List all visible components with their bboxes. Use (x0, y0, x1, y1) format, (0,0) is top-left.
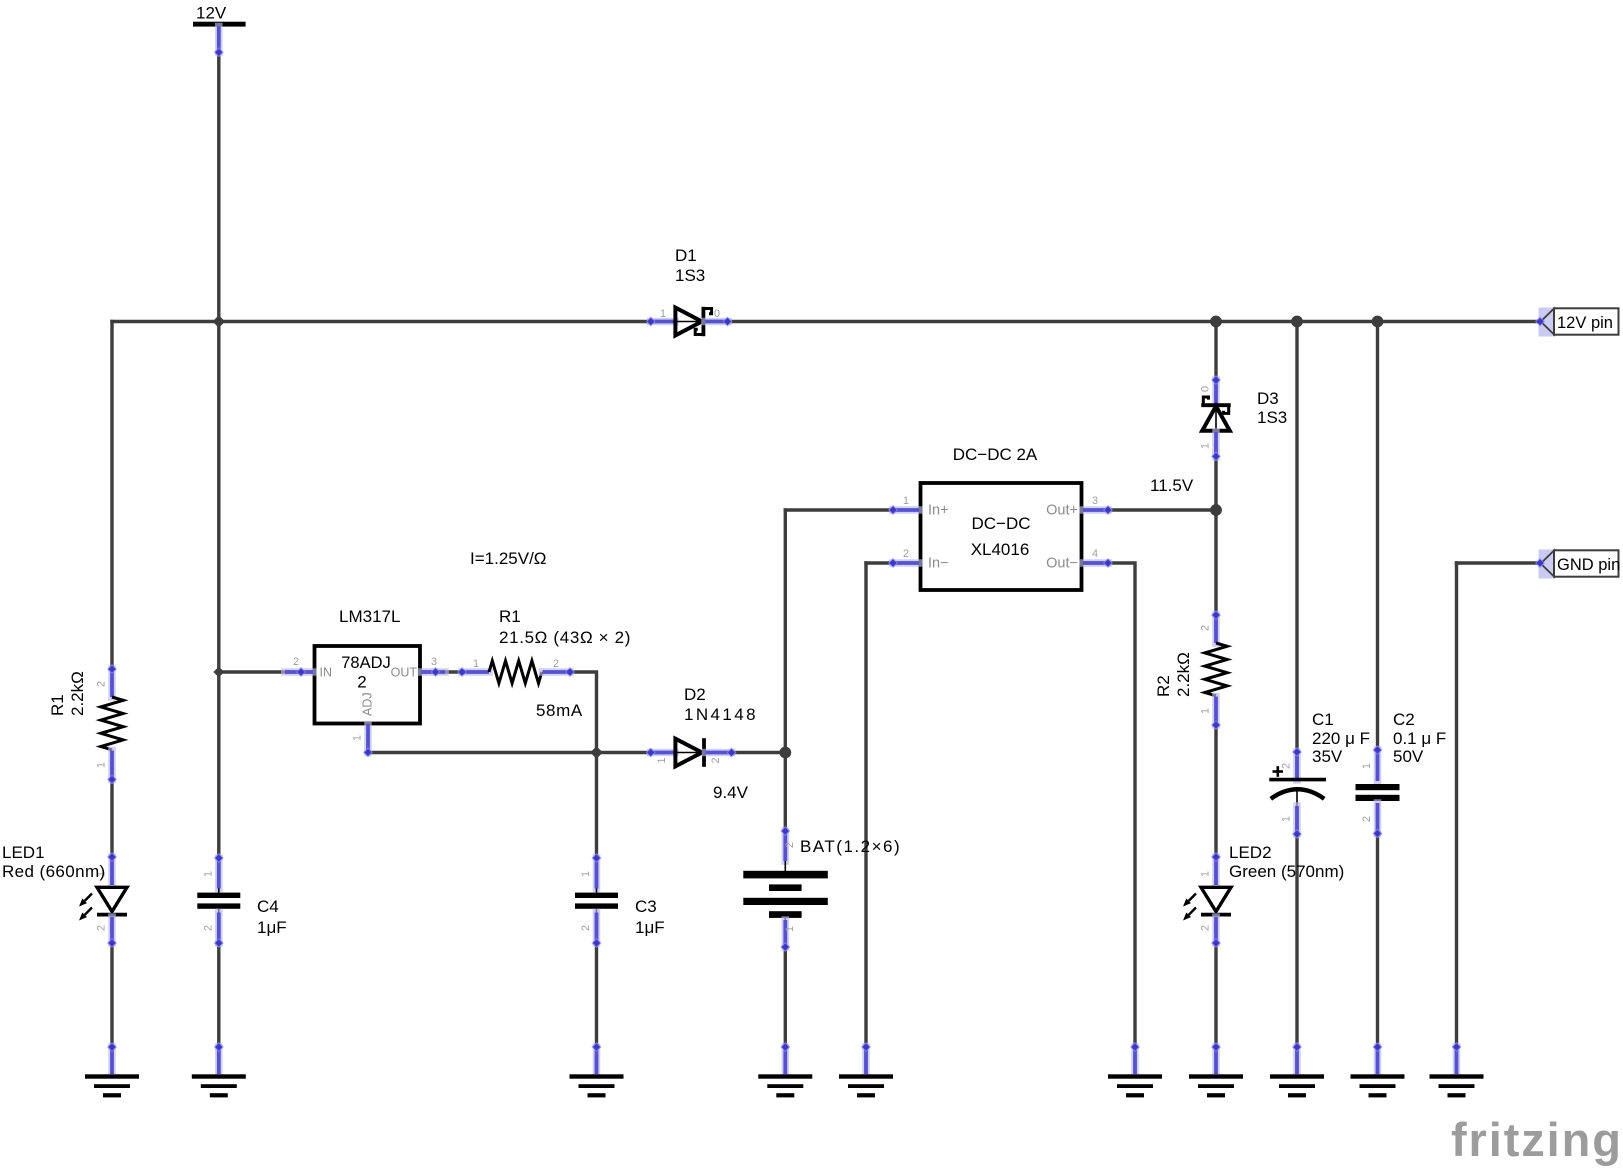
wire left branch down to R1 (110, 322, 113, 670)
svg-text:2.2kΩ: 2.2kΩ (68, 671, 87, 716)
svg-text:ADJ: ADJ (361, 692, 375, 716)
regulator U1 LM317L (315, 646, 421, 724)
svg-text:3: 3 (431, 656, 437, 668)
wire C4 to ground (217, 943, 220, 1047)
wire R1 to LED1 (110, 780, 113, 858)
svg-text:Green (570nm): Green (570nm) (1229, 862, 1344, 881)
power symbol 12V (193, 22, 246, 27)
svg-text:fritzing: fritzing (1451, 1113, 1623, 1166)
svg-text:1N4148: 1N4148 (684, 705, 758, 724)
svg-text:21.5Ω (43Ω × 2): 21.5Ω (43Ω × 2) (499, 628, 631, 647)
ground GND9 (1374, 1047, 1382, 1074)
svg-text:1: 1 (660, 308, 666, 320)
svg-text:3: 3 (1092, 495, 1098, 507)
junction node node B junction (779, 747, 791, 759)
svg-text:1: 1 (1281, 816, 1293, 822)
svg-text:GND pin: GND pin (1557, 556, 1620, 574)
wire rail to C2 (1376, 322, 1379, 751)
svg-text:Out+: Out+ (1046, 503, 1078, 519)
ground GND8 (1293, 1047, 1301, 1074)
svg-text:2.2kΩ: 2.2kΩ (1174, 652, 1193, 697)
svg-text:2: 2 (96, 681, 108, 687)
svg-text:2: 2 (96, 925, 108, 931)
svg-text:I=1.25V/Ω: I=1.25V/Ω (470, 549, 547, 568)
svg-text:220 μ F: 220 μ F (1312, 729, 1370, 748)
svg-text:2: 2 (1200, 925, 1212, 931)
svg-text:In−: In− (928, 556, 949, 572)
wire D2 to node B (732, 751, 786, 754)
wire node B to battery (784, 753, 787, 832)
battery BAT 1.2x6 (781, 831, 789, 861)
ground GND4 (781, 1047, 789, 1074)
ground GND6 (1131, 1047, 1139, 1074)
svg-text:R2: R2 (1154, 675, 1173, 697)
diode D2 1N4148 (651, 749, 675, 757)
svg-text:35V: 35V (1312, 747, 1343, 766)
wire C2 to ground (1376, 834, 1379, 1048)
wire C1 to ground (1295, 834, 1298, 1047)
svg-text:OUT: OUT (391, 666, 418, 680)
svg-text:Red (660nm): Red (660nm) (2, 862, 106, 881)
junction node C4 branch junction (213, 667, 224, 678)
svg-text:XL4016: XL4016 (971, 540, 1030, 559)
junction node rail/C1 junction (1291, 316, 1303, 328)
wire C3 to ground (595, 943, 598, 1047)
svg-text:2: 2 (1361, 816, 1373, 822)
resistor R1 2.2k ohm (108, 669, 116, 697)
wire rail to C4 branch (217, 322, 220, 859)
wire 12V supply drop (217, 52, 220, 321)
junction node rail/12V junction (213, 315, 226, 328)
converter U2 DC-DC XL4016 (921, 483, 1082, 590)
diode D3 1S3 (1212, 380, 1220, 404)
svg-text:1: 1 (784, 926, 796, 932)
capacitor C3 (593, 858, 601, 889)
svg-text:1μF: 1μF (635, 918, 665, 937)
svg-text:LM317L: LM317L (339, 607, 400, 626)
svg-text:R1: R1 (48, 694, 67, 716)
svg-text:C3: C3 (635, 897, 657, 916)
svg-text:2: 2 (903, 548, 909, 560)
svg-text:1: 1 (903, 495, 909, 507)
svg-text:1: 1 (473, 658, 479, 670)
svg-text:IN: IN (320, 666, 333, 680)
svg-text:C2: C2 (1393, 710, 1415, 729)
svg-text:9.4V: 9.4V (713, 783, 749, 802)
svg-text:50V: 50V (1393, 747, 1424, 766)
svg-text:1: 1 (1200, 708, 1212, 714)
wire Out+ to node C (1108, 508, 1216, 511)
capacitor C4 (215, 858, 223, 889)
LED LED2 green (1212, 857, 1220, 885)
svg-text:0: 0 (714, 308, 720, 320)
diode D1 1S3 (651, 318, 675, 326)
ground GND3 (593, 1047, 601, 1074)
svg-text:12V: 12V (196, 4, 227, 23)
svg-text:BAT(1.2×6): BAT(1.2×6) (800, 837, 901, 856)
wire Out- to ground (1108, 563, 1135, 1047)
svg-text:1S3: 1S3 (675, 266, 705, 285)
ground GND5 (862, 1047, 870, 1074)
wire node B riser to In+ (785, 508, 893, 511)
wire GND pin lead (1457, 561, 1541, 564)
wire node A to C3 (595, 753, 598, 859)
wire rail to C1 (1295, 322, 1298, 753)
wire GND pin to ground (1455, 563, 1458, 1047)
connector 12V pin (1539, 308, 1555, 337)
svg-text:D1: D1 (675, 246, 697, 265)
svg-text:2: 2 (1200, 625, 1212, 631)
svg-text:1: 1 (656, 757, 668, 763)
connector GND pin (1539, 550, 1555, 579)
svg-text:11.5V: 11.5V (1150, 476, 1194, 495)
wire LED2 to ground (1214, 943, 1217, 1047)
svg-text:1S3: 1S3 (1257, 408, 1287, 427)
svg-text:0.1 μ F: 0.1 μ F (1393, 729, 1446, 748)
svg-text:2: 2 (357, 673, 366, 692)
svg-text:4: 4 (1092, 548, 1098, 560)
ground GND7 (1212, 1047, 1220, 1074)
wire In- to ground (864, 563, 867, 1047)
junction node node A junction (590, 746, 603, 759)
resistor R2 2.2k ohm (1212, 615, 1220, 643)
svg-text:1: 1 (352, 735, 364, 741)
svg-text:1: 1 (202, 871, 214, 877)
resistor R1 21.5 ohm (462, 668, 489, 676)
svg-text:LED1: LED1 (2, 843, 45, 862)
svg-text:C4: C4 (257, 897, 279, 916)
junction node rail/C2 junction (1372, 316, 1384, 328)
svg-text:12V pin: 12V pin (1557, 314, 1613, 332)
svg-text:C1: C1 (1312, 710, 1334, 729)
junction node rail/D3 junction (1210, 316, 1222, 328)
svg-text:2: 2 (784, 842, 796, 848)
svg-text:2: 2 (580, 925, 592, 931)
wire 12V rail left segment (112, 320, 648, 323)
svg-text:1: 1 (1361, 763, 1373, 769)
wire D3 to node C / R2 (1214, 456, 1217, 615)
wire 12V rail right segment (728, 320, 1541, 323)
svg-text:2: 2 (710, 757, 722, 763)
svg-text:2: 2 (202, 925, 214, 931)
wire LM317 OUT to R1 (436, 670, 463, 673)
svg-text:1: 1 (1200, 443, 1212, 449)
svg-text:R1: R1 (499, 607, 521, 626)
junction node node C 11.5V junction (1210, 504, 1222, 516)
wire battery to ground (784, 947, 787, 1047)
svg-text:0: 0 (1200, 386, 1212, 392)
svg-text:1: 1 (96, 762, 108, 768)
wire R1 to node A (570, 672, 597, 753)
wire branch to LM317 IN (219, 670, 287, 673)
capacitor C1 220uF (1293, 752, 1301, 780)
ground GND1 (108, 1047, 116, 1074)
svg-text:78ADJ: 78ADJ (341, 654, 391, 672)
svg-text:1: 1 (580, 871, 592, 877)
wire In- lead (866, 561, 893, 564)
svg-text:2: 2 (1281, 763, 1293, 769)
svg-text:2: 2 (553, 658, 559, 670)
svg-text:2: 2 (293, 656, 299, 668)
ground GND2 (215, 1047, 223, 1074)
svg-text:LED2: LED2 (1229, 843, 1272, 862)
wire node B vertical (784, 510, 787, 753)
wire LED1 to ground (110, 943, 113, 1047)
wire rail to D3 (1214, 322, 1217, 381)
wire R2 to LED2 (1214, 725, 1217, 857)
wire ADJ to node A (370, 751, 597, 754)
svg-text:58mA: 58mA (536, 701, 583, 720)
svg-text:DC−DC 2A: DC−DC 2A (953, 445, 1038, 464)
svg-text:1: 1 (1200, 871, 1212, 877)
svg-text:1μF: 1μF (257, 918, 287, 937)
wire node A to D2 (597, 751, 651, 754)
svg-text:In+: In+ (928, 503, 949, 519)
ground GND10 (1453, 1047, 1461, 1074)
capacitor C2 0.1uF (1374, 750, 1382, 781)
svg-text:Out−: Out− (1046, 556, 1078, 572)
LED LED1 red (108, 857, 116, 885)
svg-text:DC−DC: DC−DC (971, 514, 1030, 533)
svg-text:D3: D3 (1257, 389, 1279, 408)
svg-text:D2: D2 (684, 685, 706, 704)
